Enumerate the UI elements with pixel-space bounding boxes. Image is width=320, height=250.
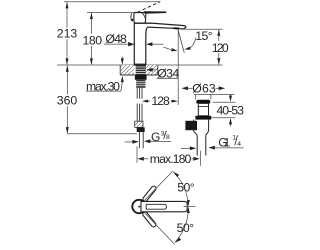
svg-text:180: 180 [83,33,103,47]
waste lower body [194,120,209,136]
hose end nuts G3/8 [137,127,145,132]
svg-text:15°: 15° [195,29,213,43]
supply hoses [137,88,142,121]
G3/8 leader arrows [125,139,152,143]
svg-text:8: 8 [166,134,170,141]
top view: lower dimension arc with arrows [175,208,188,242]
waste plug top disk [196,100,210,104]
svg-text:50°: 50° [177,180,195,194]
svg-text:50°: 50° [177,221,195,235]
top view: spout inner slot [146,204,166,209]
max.180 left extension line [136,146,138,163]
label G3/8 with underline [151,130,170,144]
top view: upper 50 deg line [145,171,173,200]
dim 120 top extension line (aerator level) [181,28,223,30]
G1 1/4 leader arrows [181,146,217,150]
dim 128 horizontal with outward arrows [142,100,178,103]
dim 120 vertical line with arrows [217,29,220,64]
svg-text:40-53: 40-53 [216,104,244,118]
svg-text:128: 128 [151,94,170,108]
waste flange [195,116,211,120]
threaded shank below nut [136,80,145,88]
15 degree leader: left arrow [164,47,178,51]
handle base / cartridge [134,12,146,23]
hose braided section [135,121,143,127]
svg-text:max.180: max.180 [150,152,192,166]
top view: swivel circle [132,200,145,213]
svg-text:120: 120 [212,41,229,55]
svg-text:360: 360 [57,94,78,108]
dim max.180 with arrows [137,157,199,161]
max.180 right extension line [200,151,202,166]
top view: upper dimension arc with arrows [173,172,188,205]
top view: center dot [138,206,140,208]
handle raised position dashed line [137,2,160,13]
aerator at spout tip [174,27,180,29]
threaded shank through deck [135,64,147,75]
top view: upper arm at +50 [142,185,157,202]
svg-text:G1: G1 [218,136,230,149]
mounting nut below deck [135,75,147,80]
top view: centerline right [184,206,196,208]
handle rotation arc arrow [130,13,133,21]
label G1 1/4 with underline [218,135,241,150]
40-53 bottom arrow pointing up [229,118,232,127]
top view: lower arm at -50 [142,211,157,228]
dim 360 vertical line with arrows [66,65,69,133]
Ø63 extension lines down to plug [195,94,197,99]
svg-text:213: 213 [57,27,78,41]
dim 213 top extension line [64,1,161,3]
deck top line [57,64,223,66]
waste tailpipe G1 1/4 [197,135,206,155]
handle lever [144,11,167,13]
top view: spout pointing right [141,201,187,211]
dim 180 vertical line with arrows [90,13,93,65]
15 degree leader: right arrow with arc to label [184,38,196,50]
hose threaded ends [139,132,143,148]
40-53 bottom reference line (flange bottom) [211,117,235,119]
dim 180 extension line [87,11,144,13]
Ø48 right side arrow [146,42,163,46]
dim 360 bottom extension line [67,133,137,135]
waste upper body [198,103,208,115]
water stream plumb line [177,29,179,105]
Ø63 underline [194,93,235,95]
svg-text:4: 4 [237,141,241,148]
deck slab cross-section hatched [120,65,158,75]
waste side port [185,121,197,130]
40-53 top reference line (plug top) [213,101,236,103]
top view: lower 50 deg line [145,213,175,245]
faucet body and spout outline [134,23,186,65]
svg-text:Ø63: Ø63 [192,82,216,96]
dim 40-53: top arrow pointing down [229,94,232,102]
water stream 15 degree line [178,29,184,52]
dim 213 vertical line with arrows [66,2,69,65]
